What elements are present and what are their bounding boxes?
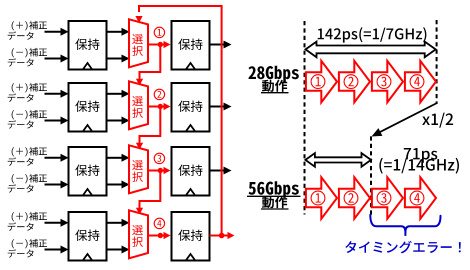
label (−)補正データ row 2 (8, 110, 47, 129)
register 保持 U4A (69, 212, 107, 261)
wire U2A to mux (+) (107, 90, 130, 98)
wire input (+) row 3 (45, 154, 69, 162)
circled number 4 (phase label) (154, 218, 164, 228)
label (−)補正データ row 4 (8, 239, 47, 258)
label 71ps (404, 148, 438, 163)
label (+)補正データ row 1 (8, 21, 47, 40)
register 保持 U1A (69, 21, 107, 70)
mux 選択 M1 (129, 19, 148, 67)
wire output row 4 (red, feedback tap), junction node (210, 232, 235, 239)
label (=1/14GHz) (379, 158, 459, 174)
wire output row 2 (210, 103, 232, 111)
wire input (−) row 3 (45, 181, 69, 189)
wire x1/2 diagonal arrow (372, 103, 438, 137)
dashed reference line right 142ps (period end 28G) (436, 20, 438, 104)
delay stage arrow 3 (28G chain) (372, 61, 403, 103)
mux 選択 M4 (129, 210, 148, 258)
circled number 1 (phase label) (154, 27, 164, 37)
label タイミングエラー！ (345, 241, 461, 254)
dashed reference line 71ps (period end 56G) (370, 136, 372, 215)
double arrow span 142ps (306, 42, 436, 58)
delay stage arrow 1 (56G chain) (306, 177, 337, 219)
wire select M3 output to M4 select input (136, 171, 160, 215)
label 142ps(=1/7GHz) (318, 27, 427, 42)
label 動作 (56G), underlined (261, 196, 289, 209)
wire U2A to mux (−) (107, 117, 130, 125)
delay stage arrow 3 (56G chain) (372, 177, 403, 219)
wire U4A to mux (+) (107, 219, 130, 227)
register 保持 U2A (69, 83, 107, 132)
wire mux M2 output to U2B, junction node (148, 103, 171, 110)
label 28Gbps (249, 66, 299, 83)
delay stage arrow 2 (56G chain) (339, 177, 370, 219)
wire output row 1 (210, 41, 232, 49)
circled number 3 (phase label) (154, 153, 164, 163)
register 保持 U3A (69, 147, 107, 196)
delay stage arrow 4 (56G chain) (405, 177, 436, 219)
delay stage arrow 2 (28G chain) (339, 61, 370, 103)
wire U3A to mux (−) (107, 181, 130, 189)
circled number 2 (phase label) (154, 89, 164, 99)
brace timing error region (370, 215, 440, 236)
wire select M1 output to M2 select input (136, 45, 160, 86)
wire mux M1 output to U1B, junction node (148, 41, 171, 48)
wire feedback from U4B output up to M1 select input (135, 6, 221, 236)
wire input (+) row 2 (45, 90, 69, 98)
mux 選択 M2 (129, 81, 148, 129)
label (−)補正データ row 3 (8, 174, 47, 193)
label (+)補正データ row 3 (8, 147, 47, 166)
wire input (+) row 4 (45, 219, 69, 227)
label (+)補正データ row 4 (8, 212, 47, 231)
label (−)補正データ row 1 (8, 48, 47, 67)
delay stage arrow 1 (28G chain) (306, 61, 337, 103)
delay stage arrow 4 (28G chain) (405, 61, 436, 103)
register 保持 U4B (172, 212, 210, 261)
wire U3A to mux (+) (107, 154, 130, 162)
mux 選択 M3 (129, 145, 148, 193)
wire U1A to mux (−) (107, 55, 130, 63)
wire input (−) row 4 (45, 246, 69, 254)
register 保持 U1B (172, 21, 210, 70)
wire input (+) row 1 (45, 28, 69, 36)
wire output row 3 (210, 167, 232, 175)
label 56Gbps, underlined (247, 181, 301, 198)
double arrow span 71ps (305, 153, 371, 167)
register 保持 U2B (172, 83, 210, 132)
label x1/2 (422, 113, 453, 128)
dashed reference line left (period start) (304, 21, 306, 215)
wire mux M3 output to U3B, junction node (148, 167, 171, 174)
wire input (−) row 1 (45, 55, 69, 63)
register 保持 U3B (172, 147, 210, 196)
wire U4A to mux (−) (107, 246, 130, 254)
wire select M2 output to M3 select input (136, 107, 160, 150)
wire input (−) row 2 (45, 117, 69, 125)
label (+)補正データ row 2 (8, 83, 47, 102)
label 動作 (28G), underlined (261, 80, 289, 93)
wire U1A to mux (+) (107, 28, 130, 36)
wire mux M4 output to U4B, junction node (148, 232, 171, 239)
